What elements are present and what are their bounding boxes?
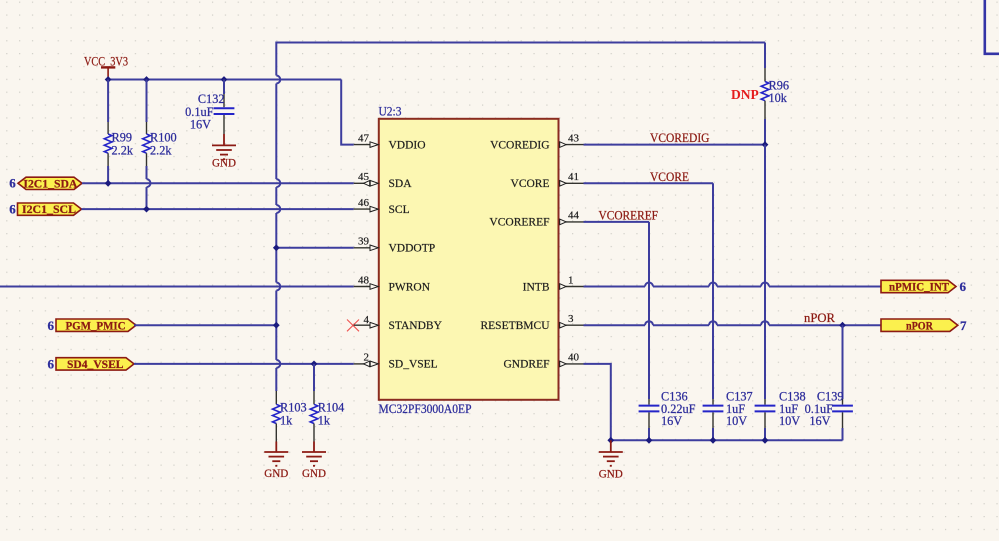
svg-text:VCOREREF: VCOREREF <box>489 217 549 229</box>
svg-text:2.2k: 2.2k <box>150 144 172 158</box>
svg-text:GND: GND <box>212 158 236 170</box>
svg-text:40: 40 <box>568 352 580 364</box>
svg-text:43: 43 <box>568 132 580 144</box>
pin 1 INTB <box>523 274 584 293</box>
capacitor C136 <box>639 390 696 441</box>
wire vertical x=765 from VCOREDIG to C138 <box>764 145 766 399</box>
svg-text:16V: 16V <box>661 414 682 428</box>
junction <box>710 437 717 444</box>
svg-text:SD4_VSEL: SD4_VSEL <box>67 357 124 371</box>
svg-text:6: 6 <box>9 176 16 191</box>
pin 44 VCOREREF <box>489 210 583 229</box>
svg-text:U2:3: U2:3 <box>379 105 402 119</box>
svg-text:PWRON: PWRON <box>389 281 431 293</box>
wire C139 bottom riser <box>842 428 844 440</box>
svg-text:1k: 1k <box>318 414 331 428</box>
svg-text:6: 6 <box>48 318 55 333</box>
power symbol VCC_3V3 <box>84 54 128 80</box>
svg-text:1: 1 <box>568 274 574 286</box>
svg-text:39: 39 <box>358 236 370 248</box>
wire top net line <box>276 42 765 44</box>
svg-text:VCOREDIG: VCOREDIG <box>490 139 549 151</box>
junction <box>273 244 280 251</box>
svg-text:GNDREF: GNDREF <box>503 359 549 371</box>
junction <box>762 141 769 148</box>
wire VDDOTP <box>276 247 353 249</box>
port I2C1_SCL <box>9 201 81 216</box>
svg-text:10V: 10V <box>726 414 747 428</box>
wire vertical x=649 from VCOREREF to C136 <box>648 222 650 399</box>
pin 45 SDA <box>354 171 413 190</box>
svg-text:VCOREREF: VCOREREF <box>599 208 659 223</box>
wire vertical net x=276 (with hops) <box>276 42 280 392</box>
capacitor C132 <box>185 80 234 135</box>
wire PGM_PMIC <box>134 324 276 326</box>
wire VCOREDIG <box>584 144 766 146</box>
svg-text:R100: R100 <box>150 131 177 145</box>
junction <box>646 437 653 444</box>
svg-text:1k: 1k <box>280 414 293 428</box>
junction <box>105 180 112 187</box>
svg-text:SDA: SDA <box>389 178 413 190</box>
pin 48 PWRON <box>354 274 431 293</box>
pin 2 SD_VSEL <box>354 352 438 371</box>
svg-text:6: 6 <box>9 201 16 216</box>
svg-text:VDDOTP: VDDOTP <box>389 243 436 255</box>
junction <box>762 437 769 444</box>
wire VCOREREF <box>584 221 650 223</box>
junction <box>839 322 846 329</box>
resistor R100 <box>143 80 177 210</box>
port SD4_VSEL <box>48 357 135 372</box>
svg-text:GND: GND <box>302 468 326 480</box>
svg-text:R104: R104 <box>318 401 345 415</box>
svg-text:INTB: INTB <box>523 281 550 293</box>
svg-text:10k: 10k <box>769 91 788 105</box>
svg-text:4: 4 <box>364 314 370 326</box>
ground under R103 <box>264 442 288 466</box>
wire vertical x=713 from VCORE to C137 <box>712 183 714 399</box>
ground bottom (GNDREF) <box>599 440 623 466</box>
wire vertical x=842.5 from nPOR to C139 <box>842 325 844 399</box>
svg-text:16V: 16V <box>190 118 211 132</box>
port I2C1_SDA <box>9 176 82 191</box>
wire bottom GND bus <box>611 439 843 441</box>
svg-text:GND: GND <box>264 468 288 480</box>
svg-text:46: 46 <box>358 197 370 209</box>
junction <box>607 437 614 444</box>
junction <box>143 206 150 213</box>
wire INTB to port <box>584 283 882 287</box>
svg-text:16V: 16V <box>809 414 830 428</box>
svg-text:GND: GND <box>599 469 623 481</box>
pin 46 SCL <box>354 197 410 216</box>
no-ERC marker on STANDBY <box>347 320 359 332</box>
pin 39 VDDOTP <box>354 236 435 255</box>
pin 4 STANDBY <box>354 314 443 332</box>
svg-text:SCL: SCL <box>389 204 410 216</box>
junction <box>143 76 150 83</box>
svg-text:RESETBMCU: RESETBMCU <box>480 320 550 332</box>
ground under C132 <box>212 134 236 159</box>
sheet symbol corner (partial, top right) <box>985 0 999 54</box>
wire PWRON <box>0 286 354 288</box>
svg-text:R99: R99 <box>112 131 133 145</box>
pin 47 VDDIO <box>354 132 426 151</box>
wire SD4_VSEL <box>134 363 354 365</box>
svg-text:C132: C132 <box>198 92 225 106</box>
svg-text:I2C1_SCL: I2C1_SCL <box>22 202 76 216</box>
wire SDA <box>82 182 354 184</box>
junction <box>273 322 280 329</box>
capacitor C137 <box>703 390 753 441</box>
resistor R104 <box>310 364 344 442</box>
svg-text:6: 6 <box>48 357 55 372</box>
svg-text:nPOR: nPOR <box>906 318 933 332</box>
pin 40 GNDREF <box>503 352 583 371</box>
svg-text:47: 47 <box>358 132 370 144</box>
junction <box>221 76 228 83</box>
svg-text:VDDIO: VDDIO <box>389 139 426 151</box>
svg-text:VCORE: VCORE <box>650 169 689 184</box>
pin 3 RESETBMCU <box>480 313 583 332</box>
capacitor C138 <box>755 390 806 441</box>
svg-text:PGM_PMIC: PGM_PMIC <box>66 318 126 332</box>
port nPOR <box>881 318 967 333</box>
ground under R104 <box>302 442 326 466</box>
svg-text:7: 7 <box>960 318 967 333</box>
svg-text:10V: 10V <box>779 414 800 428</box>
port nPMIC_INT <box>881 279 967 294</box>
wire VCC bus <box>108 79 341 81</box>
svg-text:45: 45 <box>358 171 370 183</box>
junction <box>105 76 112 83</box>
capacitor C139 <box>805 390 853 441</box>
wire VDDIO connection <box>341 80 354 145</box>
svg-text:3: 3 <box>568 313 574 325</box>
pins are drawn by groups below <box>354 132 584 370</box>
pin 41 VCORE <box>511 171 584 190</box>
resistor R103 <box>272 391 306 442</box>
svg-text:R103: R103 <box>280 401 307 415</box>
svg-text:2.2k: 2.2k <box>112 144 134 158</box>
svg-text:6: 6 <box>960 279 967 294</box>
wire GNDREF <box>584 364 611 440</box>
svg-text:STANDBY: STANDBY <box>389 320 443 332</box>
svg-text:VCORE: VCORE <box>511 178 550 190</box>
wire RESETBMCU / nPOR <box>584 321 882 325</box>
svg-text:nPMIC_INT: nPMIC_INT <box>889 280 949 294</box>
svg-text:44: 44 <box>568 210 580 222</box>
svg-text:2: 2 <box>364 352 370 364</box>
svg-text:SD_VSEL: SD_VSEL <box>389 359 438 371</box>
svg-text:DNP: DNP <box>731 87 759 102</box>
svg-text:nPOR: nPOR <box>804 310 835 325</box>
svg-text:VCOREDIG: VCOREDIG <box>650 130 710 145</box>
junction <box>311 361 318 368</box>
resistor R96 (DNP) <box>731 43 789 145</box>
svg-text:MC32PF3000A0EP: MC32PF3000A0EP <box>379 402 472 416</box>
svg-text:41: 41 <box>568 171 579 183</box>
resistor R99 <box>104 80 134 184</box>
svg-text:48: 48 <box>358 274 370 286</box>
wire VCORE <box>584 182 714 184</box>
wire SCL <box>82 208 354 210</box>
pin 43 VCOREDIG <box>490 132 583 151</box>
port PGM_PMIC <box>48 318 137 333</box>
svg-text:I2C1_SDA: I2C1_SDA <box>23 176 77 190</box>
IC U2:3 body <box>379 119 559 400</box>
